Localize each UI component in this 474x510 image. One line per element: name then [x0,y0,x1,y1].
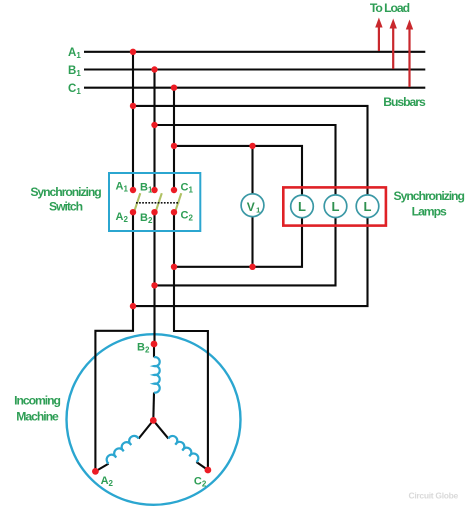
junction dot busbar C1 tap [171,85,177,91]
winding A2 leads [95,420,153,471]
svg-text:V: V [247,200,255,214]
wire switch C2 down to machine terminal C2 [174,212,208,470]
junction dot B2 branch [151,282,157,288]
lamp L1 [291,195,314,218]
machine terminal dot A2 [92,468,99,475]
winding C2 coil [168,436,198,462]
svg-text:Switch: Switch [49,200,83,214]
lamp L2 [324,195,347,218]
svg-text:Lamps: Lamps [412,205,447,219]
svg-text:L: L [332,199,340,214]
To Load arrow on busbar C1 [406,20,413,88]
voltmeter V1 [241,194,264,217]
busbar C1 [84,87,425,89]
wire B1 tap down to switch [153,70,155,191]
svg-text:Synchronizing: Synchronizing [30,185,101,199]
busbar A1 [84,51,425,53]
wire lamp L1 bottom to C2 [174,217,302,266]
wire C1 tap down to switch [173,88,175,190]
junction dot V1 bottom [249,264,255,270]
wire A1 branch to lamp L3 top [133,106,368,195]
machine star point dot [150,417,157,424]
svg-text:1: 1 [256,206,260,215]
wire B1 branch to lamp L2 top [155,125,336,195]
switch linkage dotted line [136,202,180,204]
wire switch A2 down to machine terminal A2 [95,212,133,471]
svg-text:Machine: Machine [16,409,59,423]
junction dot B1 branch [151,122,157,128]
svg-text:To Load: To Load [370,1,410,15]
winding B2 leads [152,344,155,420]
svg-text:Busbars: Busbars [383,95,426,109]
incoming machine circle [67,334,241,505]
machine terminal dot C2 [205,467,212,474]
wire lamp L3 bottom to A2 [133,217,368,306]
lamp L3 [356,195,379,218]
To Load arrow on busbar A1 [375,18,382,52]
synchronizing switch box [109,173,200,231]
To Load arrow on busbar B1 [390,19,397,69]
switch contact dot C2 [171,209,177,215]
machine terminal dot B2 [151,341,158,348]
svg-text:L: L [298,199,306,214]
junction dot C1 branch [171,143,177,149]
junction dot V1 top [249,143,255,149]
switch contact dot A2 [130,209,136,215]
wire voltmeter V1 bottom lead [251,216,253,266]
busbar B1 [84,68,425,70]
junction dot busbar B1 tap [151,66,157,72]
switch contact dot B1 [151,187,157,193]
svg-text:Incoming: Incoming [14,393,60,407]
svg-text:Synchronizing: Synchronizing [394,189,465,203]
winding C2 leads [153,420,208,470]
winding B2 coil [154,357,160,392]
switch contact dot C1 [171,187,177,193]
junction dot A2 branch [130,303,136,309]
switch blade A [133,193,140,214]
wire voltmeter V1 top lead [251,146,253,194]
winding A2 coil [107,436,139,464]
switch contact dot A1 [130,187,136,193]
junction dot C2 branch [171,264,177,270]
wire switch B2 down to machine terminal B2 [153,212,155,344]
synchronizing lamps box [283,187,386,225]
svg-text:L: L [364,199,372,214]
switch blade B [155,193,162,214]
wire C1 branch to lamp L1 top [174,146,302,196]
svg-text:Circuit Globe: Circuit Globe [409,491,459,501]
wire lamp L2 bottom to B2 [155,217,336,285]
switch contact dot B2 [151,209,157,215]
junction dot A1 branch [130,103,136,109]
junction dot busbar A1 tap [130,49,136,55]
switch blade C [174,193,181,214]
wire A1 tap down to switch [132,52,134,190]
